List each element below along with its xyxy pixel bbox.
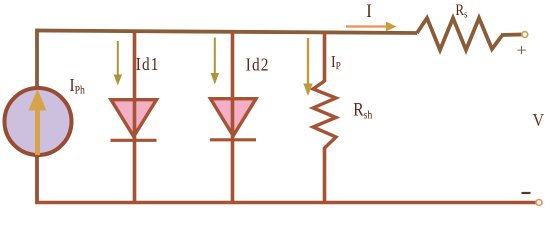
arrow I bbox=[346, 22, 397, 32]
label minus bbox=[522, 192, 531, 194]
svg-text:V: V bbox=[533, 110, 545, 130]
svg-text:Rsh: Rsh bbox=[353, 99, 373, 122]
wire branch D1 bbox=[133, 31, 137, 202]
wire branch Rsh upper bbox=[323, 32, 327, 83]
svg-text:Id2: Id2 bbox=[246, 54, 270, 74]
svg-text:I: I bbox=[366, 0, 372, 21]
wire top bbox=[37, 31, 417, 34]
arrow IP bbox=[303, 38, 312, 96]
svg-text:Rs: Rs bbox=[455, 2, 467, 21]
arrow Id1 bbox=[114, 41, 122, 86]
wire branch Rsh lower bbox=[323, 147, 327, 202]
wire left lower bbox=[35, 155, 39, 204]
svg-text:IP: IP bbox=[331, 53, 341, 72]
resistor Rsh bbox=[313, 81, 336, 148]
arrow Id2 bbox=[211, 38, 219, 85]
resistor Rs bbox=[417, 18, 502, 50]
svg-text:+: + bbox=[517, 40, 527, 60]
wire Rs to terminal bbox=[501, 33, 522, 37]
current source IPh bbox=[5, 88, 72, 155]
diode D1 bbox=[111, 100, 157, 141]
diode D2 bbox=[210, 99, 256, 140]
wire left bbox=[35, 29, 39, 88]
terminal plus bbox=[522, 32, 528, 38]
wire bottom bbox=[35, 201, 536, 205]
svg-text:IPh: IPh bbox=[70, 75, 86, 97]
wire branch D2 bbox=[231, 32, 235, 203]
svg-text:Id1: Id1 bbox=[136, 54, 160, 74]
terminal minus bbox=[536, 200, 542, 206]
